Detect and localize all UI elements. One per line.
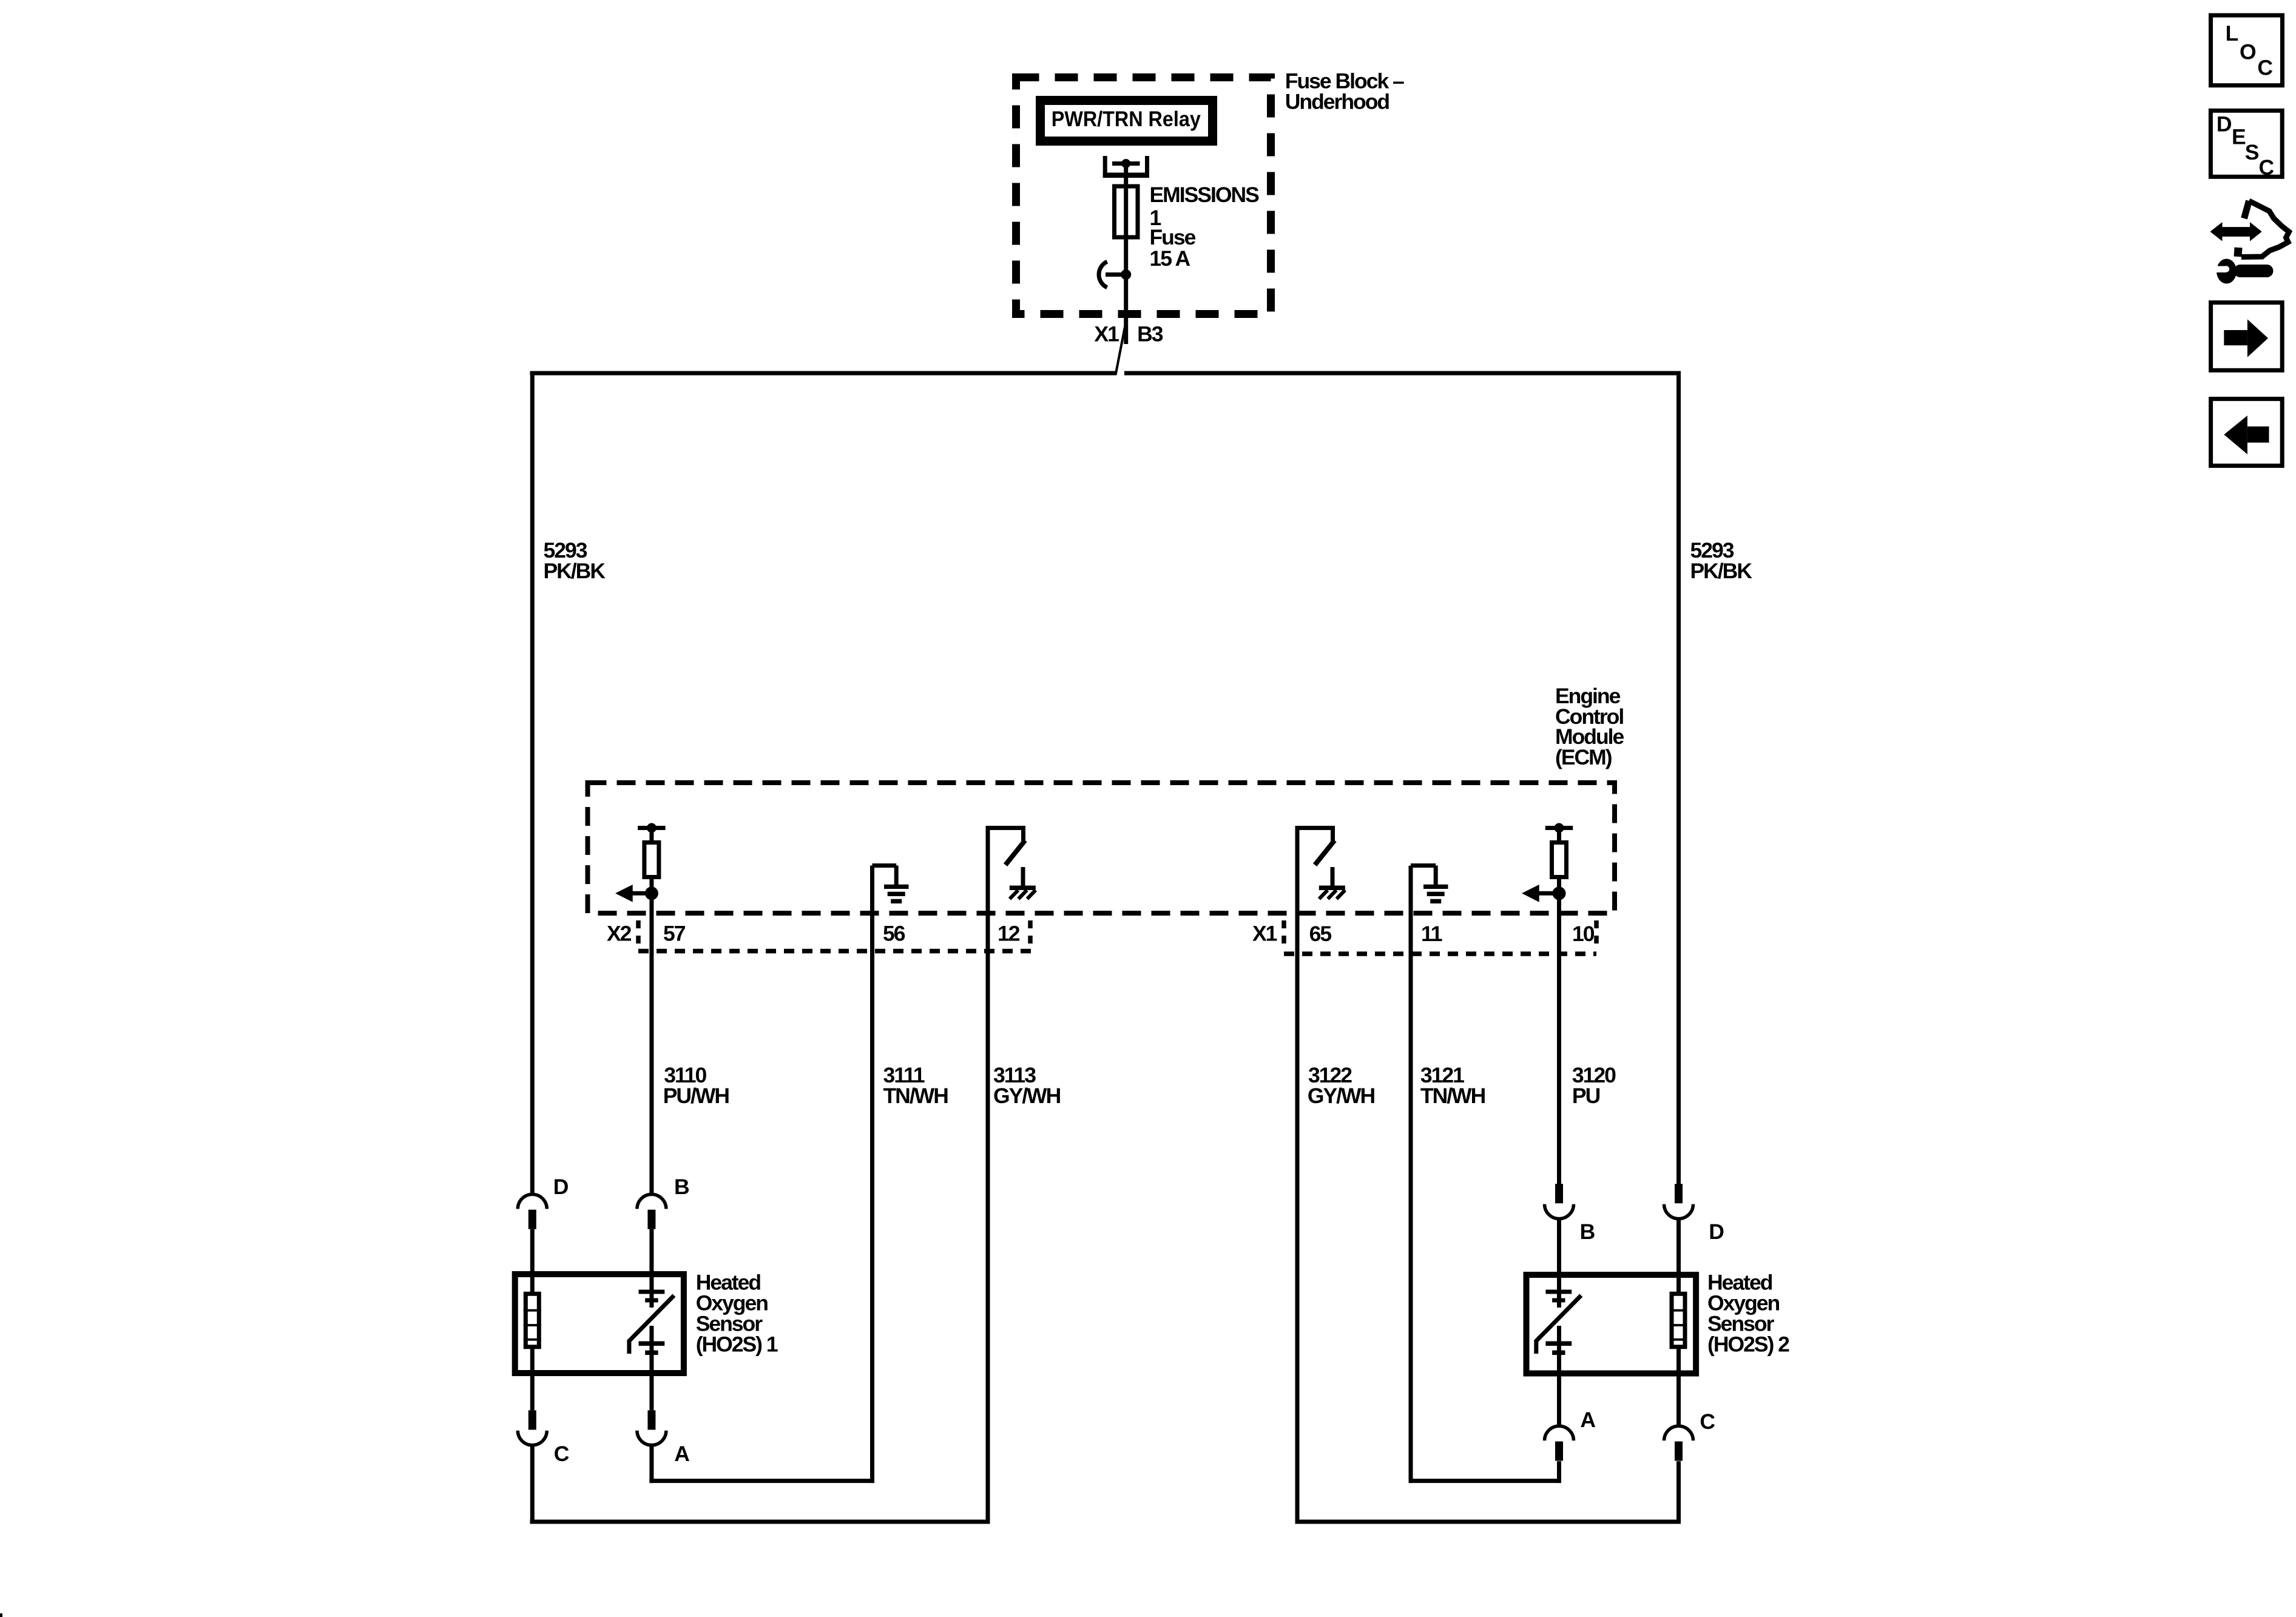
pin label 56 [883,922,905,946]
label 3113 GY/WH [993,1063,1061,1108]
svg-text:D: D [553,1175,569,1199]
in-line connector hook at fuse output [1099,262,1126,288]
label 5293 PK/BK right [1690,538,1753,583]
connector B (HO2S2) [1545,1184,1574,1218]
junction dot below fuse [1121,269,1131,280]
wire 5293 PK/BK left vertical [530,371,535,1195]
wire pin 11 vertical [1409,866,1413,1483]
svg-text:C: C [2257,55,2272,79]
wire D to HO2S1 [530,1229,535,1294]
svg-text:PWR/TRN Relay: PWR/TRN Relay [1052,107,1201,131]
icon DESC box [2210,110,2282,179]
label B3 [1137,322,1163,346]
wire C to pin 12 horizontal [530,1520,990,1524]
svg-text:56: 56 [883,922,905,946]
svg-text:TN/WH: TN/WH [883,1084,948,1108]
svg-text:E: E [2232,125,2246,149]
label EMISSIONS 1 Fuse 15 A [1150,183,1260,271]
connector D (HO2S1) [518,1194,547,1229]
pin label 11 [1421,922,1442,946]
icon hand with double arrow and wrench [2210,201,2289,284]
icon LOC box [2211,15,2283,86]
wire pin 10 to HO2S2 B [1557,828,1561,1185]
ECM switch + chassis ground at pin 12 [986,826,1036,899]
fuse block - underhood dashed box [1016,78,1271,314]
wire B into HO2S2 [1557,1219,1561,1308]
svg-text:PK/BK: PK/BK [544,559,606,583]
wire A right to pin 11 horizontal [1409,1479,1562,1483]
label Engine Control Module (ECM) [1555,684,1624,769]
wire HO2S1 to A [649,1326,653,1410]
HO2S1 sensing element [629,1290,674,1355]
label X1 [1094,322,1119,346]
svg-text:X1: X1 [1252,922,1277,946]
wire 5293 PK/BK right vertical [1676,371,1681,1185]
svg-text:(HO2S) 2: (HO2S) 2 [1707,1332,1789,1357]
svg-text:15 A: 15 A [1150,246,1190,271]
ECM driver resistor at pin 10 with arrow [1522,823,1573,902]
icon back arrow box [2211,399,2283,465]
fuse EMISSIONS 1 15A symbol [1115,184,1138,240]
ECM dashed box [588,783,1615,913]
wire pin 65 vertical [1295,828,1300,1524]
svg-text:EMISSIONS: EMISSIONS [1150,183,1260,207]
svg-text:GY/WH: GY/WH [1308,1084,1375,1108]
svg-text:S: S [2245,140,2259,164]
svg-text:11: 11 [1421,922,1442,946]
svg-text:10: 10 [1572,922,1595,946]
svg-text:B: B [674,1175,689,1199]
svg-text:D: D [1709,1220,1724,1244]
svg-text:L: L [2226,21,2238,46]
wire top bus horizontal [530,371,1681,376]
svg-text:A: A [1580,1408,1595,1432]
HO2S2 heater element [1670,1294,1687,1347]
label 3120 PU [1572,1063,1616,1108]
label Heated Oxygen Sensor (HO2S) 1 [696,1271,778,1357]
wire A right down [1557,1461,1561,1483]
HO2S2 box [1527,1275,1697,1374]
pin label 12 [998,922,1020,946]
svg-text:PU/WH: PU/WH [663,1084,729,1108]
ECM ground symbol at pin 11 [1411,866,1448,904]
wire pin 12 vertical [986,828,990,1524]
connector strip X2 dotted outline [638,920,1032,951]
wire pin 57 to HO2S1 B [649,828,653,1195]
svg-text:X2: X2 [607,922,632,946]
label 3110 PU/WH [663,1063,729,1108]
svg-text:B3: B3 [1137,322,1163,346]
svg-text:C: C [554,1442,569,1466]
label A (HO2S2) [1580,1408,1595,1432]
label Heated Oxygen Sensor (HO2S) 2 [1707,1271,1789,1357]
connector C (HO2S2) [1664,1426,1693,1460]
wire relay-fuse-junction vertical [1124,161,1128,344]
connector slash through wire [1116,317,1127,375]
wire HO2S2 to A right [1557,1326,1561,1426]
pin label 65 [1309,922,1332,946]
label X2 [607,922,632,946]
relay PWR/TRN box [1036,96,1217,146]
svg-text:Underhood: Underhood [1285,90,1389,114]
pin label 57 [663,922,686,946]
label X1 [1252,922,1277,946]
ECM driver resistor at pin 57 with arrow [615,823,666,902]
svg-text:65: 65 [1309,922,1332,946]
HO2S2 sensing element [1536,1290,1581,1355]
page corner mark [0,1613,2,1617]
label C (HO2S2) [1700,1409,1715,1434]
connector A (HO2S2) [1545,1426,1574,1460]
connector B (HO2S1) [637,1194,666,1229]
wire A down [649,1445,653,1483]
svg-text:PU: PU [1572,1084,1600,1108]
svg-text:TN/WH: TN/WH [1420,1084,1485,1108]
ECM switch + chassis ground at pin 65 [1295,826,1345,899]
label D (HO2S2) [1709,1220,1724,1244]
svg-text:(ECM): (ECM) [1555,745,1612,769]
label B (HO2S2) [1580,1220,1595,1244]
wire B into HO2S1 [649,1229,653,1308]
pin label 10 [1572,922,1595,946]
svg-text:X1: X1 [1094,322,1119,346]
label B (HO2S1) [674,1175,689,1199]
wire C right to pin 65 horizontal [1295,1520,1681,1524]
label C (HO2S1) [554,1442,569,1466]
label 3121 TN/WH [1420,1063,1485,1108]
HO2S1 heater element [524,1294,541,1347]
svg-text:(HO2S) 1: (HO2S) 1 [696,1332,778,1357]
label A (HO2S1) [674,1442,689,1466]
svg-text:O: O [2240,40,2256,64]
connector strip X1 dotted outline [1284,920,1596,954]
svg-text:C: C [2259,155,2274,180]
svg-text:57: 57 [663,922,686,946]
label 5293 PK/BK left [544,538,606,583]
label 3122 GY/WH [1308,1063,1375,1108]
relay output terminal socket [1103,156,1149,178]
wire HO2S1 to C [530,1347,535,1410]
svg-text:D: D [2217,112,2232,136]
svg-text:PK/BK: PK/BK [1690,559,1753,583]
wire C right down [1676,1461,1681,1524]
svg-text:A: A [674,1442,689,1466]
wire D into HO2S2 [1676,1219,1681,1294]
svg-text:GY/WH: GY/WH [993,1084,1061,1108]
connector A (HO2S1) [637,1410,666,1445]
connector D (HO2S2) [1664,1184,1693,1218]
wire A to pin 56 horizontal [649,1479,874,1483]
wire C down [530,1445,535,1524]
svg-text:12: 12 [998,922,1020,946]
label Fuse Block - Underhood [1285,69,1404,114]
connector C (HO2S1) [518,1410,547,1445]
ECM ground symbol at pin 56 [873,866,909,904]
label D (HO2S1) [553,1175,569,1199]
label 3111 TN/WH [883,1063,948,1108]
HO2S1 box [515,1274,684,1373]
wire pin 56 vertical [870,866,874,1484]
svg-text:C: C [1700,1409,1715,1434]
icon forward arrow box [2211,303,2283,371]
svg-text:B: B [1580,1220,1595,1244]
svg-text:Fuse: Fuse [1150,225,1196,249]
wire HO2S2 to C right [1676,1347,1681,1426]
